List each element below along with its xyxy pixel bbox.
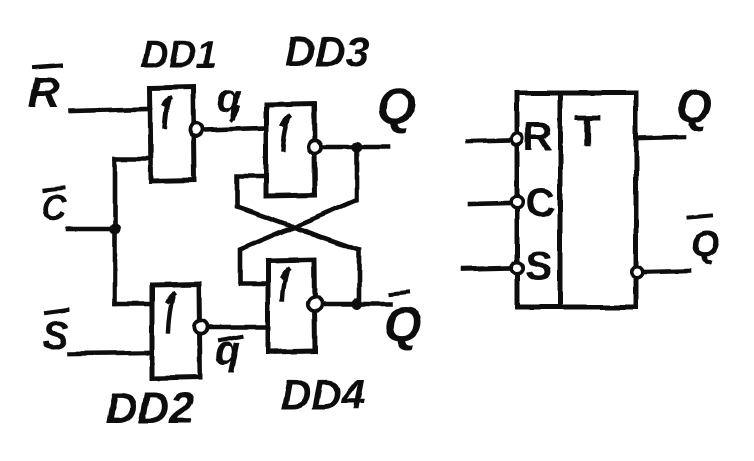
inverter circle DD1 (189, 123, 202, 136)
svg-text:S: S (42, 314, 69, 358)
svg-text:DD4: DD4 (281, 371, 365, 418)
svg-text:Q: Q (384, 299, 421, 352)
svg-text:q: q (215, 326, 241, 373)
svg-text:T: T (574, 106, 601, 155)
label 1 in DD4 (282, 270, 288, 300)
pin S inverter circle (511, 262, 523, 274)
wire Q-bar output right (645, 271, 689, 272)
wire feedback Qbar to DD3 lower input (237, 176, 359, 301)
label S-bar (42, 310, 69, 358)
wire C-bar input (68, 227, 113, 232)
wire R-bar to DD1 (70, 109, 148, 111)
label q-bar (215, 326, 242, 373)
node Q junction (352, 142, 363, 153)
flip-flop block body (517, 93, 636, 307)
wire DD2 out to DD4 in (209, 325, 266, 330)
svg-text:C: C (525, 179, 555, 226)
label Q-bar left (384, 292, 421, 352)
gate DD4 (268, 260, 315, 352)
wire Q output (323, 145, 388, 150)
flip-flop divider (558, 93, 563, 307)
svg-text:R: R (28, 68, 60, 117)
pin R input wire (468, 140, 509, 141)
gate DD2 (152, 284, 200, 378)
wire Q-bar output (324, 302, 391, 307)
wire C vertical trunk (113, 159, 118, 304)
pin S input wire (464, 268, 509, 269)
label R-bar (28, 65, 61, 117)
pin C input wire (470, 203, 509, 204)
wire DD1 out to DD3 in (204, 128, 264, 130)
inverter circle DD4 (308, 297, 322, 311)
pin Q-bar inverter circle right (631, 266, 643, 278)
wire S-bar to DD2 (69, 353, 151, 354)
svg-text:DD1: DD1 (141, 34, 217, 76)
label 1 in DD1 (165, 99, 171, 128)
wire C lower branch to DD2 (115, 302, 151, 307)
pin C inverter circle (511, 196, 523, 208)
svg-text:S: S (525, 242, 553, 289)
wire Q output right (638, 137, 684, 138)
svg-text:Q: Q (377, 78, 416, 134)
gate DD1 (150, 87, 194, 181)
label Q-bar right (689, 215, 720, 266)
wire feedback Q to DD4 upper input (240, 150, 357, 284)
label C-bar (41, 187, 68, 228)
inverter circle DD3 (308, 140, 321, 153)
node C junction (110, 224, 121, 235)
label 1 in DD2 (168, 294, 175, 332)
pin R inverter circle (511, 133, 523, 145)
svg-text:C: C (41, 187, 68, 228)
label 1 in DD3 (283, 116, 290, 150)
inverter circle DD2 (194, 320, 207, 333)
svg-text:DD3: DD3 (285, 28, 369, 75)
svg-text:q: q (217, 77, 241, 121)
svg-text:R: R (523, 115, 552, 159)
svg-text:DD2: DD2 (106, 384, 195, 433)
svg-text:Q: Q (676, 80, 712, 132)
svg-text:Q: Q (690, 224, 720, 266)
gate DD3 (266, 104, 315, 196)
wire C upper branch to DD1 (115, 157, 149, 162)
node Q-bar junction (352, 299, 363, 310)
